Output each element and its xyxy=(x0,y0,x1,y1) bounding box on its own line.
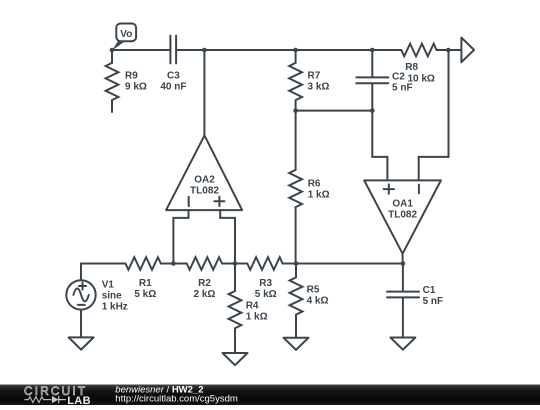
wire OA1 output to bottom rail xyxy=(402,254,404,264)
junction top rail at R8/arrow xyxy=(446,48,451,53)
R7 value label xyxy=(308,71,330,93)
svg-text:5 kΩ: 5 kΩ xyxy=(255,289,277,300)
resistor R4 xyxy=(229,264,242,354)
op-amp OA2 xyxy=(166,135,242,210)
svg-text:5 nF: 5 nF xyxy=(423,296,444,307)
junction node Vo xyxy=(110,48,115,53)
junction bottom rail at OA1 output xyxy=(401,261,406,266)
svg-text:C2: C2 xyxy=(392,72,405,83)
junction mid rail at R7/R6 xyxy=(293,108,298,113)
svg-text:V1: V1 xyxy=(102,280,115,291)
node Vo flag xyxy=(112,24,136,51)
resistor R8 xyxy=(372,44,448,57)
wire OA2 inverting input pin xyxy=(173,210,188,263)
ground at R4 xyxy=(223,353,248,365)
svg-text:R9: R9 xyxy=(125,71,138,82)
capacitor C2 xyxy=(356,50,388,111)
svg-text:2 kΩ: 2 kΩ xyxy=(194,289,216,300)
junction bottom rail at R2/R4 xyxy=(233,261,238,266)
svg-text:LAB: LAB xyxy=(67,395,91,405)
resistor R5 xyxy=(290,264,303,338)
R2 value label xyxy=(194,278,216,300)
svg-text:1 kΩ: 1 kΩ xyxy=(308,189,330,200)
svg-text:R7: R7 xyxy=(308,71,321,82)
voltage source V1 xyxy=(66,264,95,338)
op-amp OA1 xyxy=(364,180,441,253)
svg-text:R3: R3 xyxy=(259,278,272,289)
junction bottom rail at OA2 inverting input xyxy=(171,261,176,266)
wire to output flag xyxy=(448,49,461,51)
svg-text:OA2: OA2 xyxy=(194,175,215,186)
svg-text:R5: R5 xyxy=(307,285,320,296)
svg-text:C3: C3 xyxy=(167,71,180,82)
wire OA2 output to top rail xyxy=(203,50,205,135)
svg-text:1 kΩ: 1 kΩ xyxy=(246,312,268,323)
junction top rail at R7 xyxy=(293,48,298,53)
svg-text:3 kΩ: 3 kΩ xyxy=(308,82,330,93)
R9 value label xyxy=(125,71,147,93)
R8 value label xyxy=(405,62,435,85)
wire OA1 non-inverting input from C2 node xyxy=(372,111,387,181)
wire top rail middle: C3 to R8 xyxy=(177,49,372,51)
footer title text xyxy=(115,384,238,404)
svg-text:sine: sine xyxy=(102,291,122,302)
svg-text:OA1: OA1 xyxy=(392,199,413,210)
capacitor C3 xyxy=(170,36,176,64)
junction mid rail at C2 xyxy=(370,108,375,113)
C3 value label xyxy=(160,71,186,93)
R6 value label xyxy=(308,178,330,200)
svg-text:40 nF: 40 nF xyxy=(160,82,186,93)
svg-text:R2: R2 xyxy=(198,278,211,289)
wire R2 to R3 xyxy=(235,263,247,265)
svg-text:1 kHz: 1 kHz xyxy=(102,302,128,313)
C1 value label xyxy=(423,285,444,307)
wire mid rail R7 to C2 xyxy=(296,110,373,112)
svg-text:Vo: Vo xyxy=(120,29,132,40)
R1 value label xyxy=(134,278,156,300)
resistor R2 xyxy=(187,257,235,270)
junction top rail at OA2 output xyxy=(202,48,207,53)
resistor R6 xyxy=(289,111,302,264)
svg-text:9 kΩ: 9 kΩ xyxy=(125,82,147,93)
wire OA2 non-inverting input pin xyxy=(220,210,235,263)
resistor R9 xyxy=(106,50,119,112)
ground at V1 xyxy=(69,337,94,349)
resistor R3 xyxy=(247,257,296,270)
svg-text:R4: R4 xyxy=(246,301,259,312)
R4 value label xyxy=(246,301,268,323)
junction bottom rail at R3/R5/R6 xyxy=(294,261,299,266)
ground at R5 xyxy=(284,338,309,350)
R3 value label xyxy=(255,278,277,300)
resistor R1 xyxy=(126,257,174,270)
junction top rail at C2 xyxy=(370,48,375,53)
logo resistor-diode squiggle xyxy=(24,396,66,403)
svg-text:R8: R8 xyxy=(405,62,418,73)
wire top rail left: node Vo to C3 left plate xyxy=(112,49,169,51)
svg-text:4 kΩ: 4 kΩ xyxy=(307,296,329,307)
svg-text:TL082: TL082 xyxy=(388,210,417,221)
svg-text:5 nF: 5 nF xyxy=(392,83,413,94)
output terminal arrow xyxy=(461,38,474,63)
wire R3 to OA1 output xyxy=(296,263,403,265)
svg-text:R6: R6 xyxy=(308,178,321,189)
capacitor C1 xyxy=(387,264,419,338)
svg-text:http://circuitlab.com/cg5ysdm: http://circuitlab.com/cg5ysdm xyxy=(115,393,238,404)
svg-text:TL082: TL082 xyxy=(190,186,219,197)
svg-text:C1: C1 xyxy=(423,285,436,296)
resistor R7 xyxy=(289,50,302,111)
bottom rail with R1 R2 R3: wire V1 to R1 xyxy=(81,263,126,265)
svg-text:R1: R1 xyxy=(139,278,152,289)
wire OA1 inverting input from R8 output node xyxy=(419,50,449,180)
CircuitLab logo wordmark xyxy=(24,384,91,407)
R5 value label xyxy=(307,285,329,307)
footer bar xyxy=(0,385,540,406)
wire R1 to R2 xyxy=(173,263,186,265)
C2 value label xyxy=(392,72,413,94)
ground at C1 xyxy=(390,338,415,350)
V1 value label xyxy=(102,280,128,313)
svg-text:5 kΩ: 5 kΩ xyxy=(134,289,156,300)
